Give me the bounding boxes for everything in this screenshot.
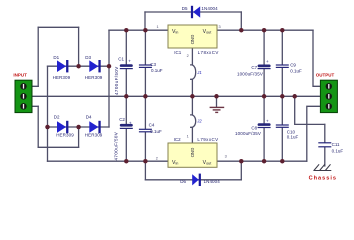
regulator IC1 body: [168, 25, 217, 48]
node -V at C2: [124, 159, 129, 164]
wire input top pin to riser: [24, 85, 39, 87]
node GND at C3/C4: [143, 94, 148, 99]
svg-text:1N4004: 1N4004: [201, 6, 218, 11]
node GND at J1/J2: [190, 94, 195, 99]
wire C9 stems: [281, 30, 283, 96]
svg-text:0.1uF: 0.1uF: [287, 135, 299, 140]
svg-text:D1: D1: [53, 55, 59, 60]
svg-text:0.1uF: 0.1uF: [151, 68, 163, 73]
wire AC1 drop to top diode row junction: [78, 27, 80, 66]
svg-text:Chassis: Chassis: [309, 176, 337, 182]
capacitor C4: [139, 129, 152, 133]
diode D3: [89, 60, 100, 72]
wire top diode row: [48, 65, 110, 67]
jumper J1: [191, 65, 196, 79]
svg-text:C7: C7: [251, 65, 257, 70]
node bottom row AC2 junction: [76, 125, 81, 130]
wire +V drop to output top pin: [313, 30, 320, 86]
svg-text:HER309: HER309: [85, 75, 103, 80]
svg-text:D6: D6: [180, 179, 186, 184]
regulator IC2 body: [168, 143, 217, 167]
node GND chassis tap: [292, 94, 297, 99]
capacitor C11: [318, 142, 331, 147]
wire -V rail from IC2 Vout: [217, 160, 307, 162]
chassis symbol: [313, 164, 331, 170]
svg-text:HER309: HER309: [56, 133, 74, 138]
svg-text:D5: D5: [182, 6, 188, 11]
node bottom row minus junction: [45, 125, 50, 130]
diode D5: [191, 6, 200, 18]
node top row AC1 junction: [76, 64, 81, 69]
wire D5 branch left riser: [144, 12, 146, 30]
wire C1 stems: [125, 30, 127, 96]
svg-text:Vout: Vout: [203, 29, 213, 35]
wire IC1 pin2 stem upper: [191, 48, 193, 65]
INPUT pin 3: [20, 103, 26, 109]
INPUT pin 1: [20, 83, 26, 89]
node -V at C8: [262, 159, 267, 164]
svg-text:C11: C11: [332, 142, 340, 147]
wire C10 stems: [281, 96, 283, 161]
svg-text:C9: C9: [290, 63, 296, 68]
wire C11 stems: [324, 124, 326, 166]
wire input bottom pin: [24, 105, 39, 107]
svg-text:1N4004: 1N4004: [204, 179, 221, 184]
wire +V line to IC1 Vin: [109, 29, 168, 31]
wire D5 branch horizontal: [145, 11, 241, 13]
svg-text:3: 3: [219, 25, 221, 29]
svg-text:1000uF/35V: 1000uF/35V: [237, 72, 263, 77]
svg-text:J1: J1: [196, 70, 201, 75]
svg-text:+: +: [266, 119, 269, 124]
wire -V rise to output bottom pin: [307, 106, 321, 161]
wire D6 branch horizontal: [145, 179, 241, 181]
svg-text:INPUT: INPUT: [13, 73, 27, 78]
svg-text:D2: D2: [54, 115, 60, 120]
node +V at C1 top: [124, 28, 129, 33]
wire D5 branch right riser: [240, 12, 242, 30]
svg-text:D4: D4: [86, 115, 92, 120]
capacitor C3: [139, 64, 152, 68]
wire D6 branch right rise: [240, 161, 242, 180]
node GND at C1/C2: [124, 94, 129, 99]
svg-text:+: +: [129, 120, 132, 125]
diode D4: [89, 121, 100, 133]
diode D6: [192, 174, 201, 186]
INPUT pin 2: [20, 93, 26, 99]
capacitor C8: [258, 119, 271, 129]
wire C7 stems: [263, 30, 265, 96]
wire left bridge rail (minus node): [47, 66, 49, 161]
wire -V rail to IC2 Vin: [48, 160, 169, 162]
wire C8 stems: [263, 96, 265, 161]
jumper J2: [191, 115, 196, 127]
svg-text:4700uF/50V: 4700uF/50V: [113, 132, 118, 161]
svg-text:IC2: IC2: [174, 137, 182, 142]
capacitor C1: [120, 58, 133, 69]
wire AC1 over-bridge horizontal: [38, 26, 78, 28]
node GND at C9/C10: [280, 94, 285, 99]
wire C3 stems: [144, 30, 146, 96]
svg-text:C8: C8: [251, 126, 257, 131]
svg-text:J2: J2: [196, 119, 202, 124]
wire IC2 pin1 stem lower: [191, 127, 193, 143]
node -V at C10: [280, 159, 285, 164]
svg-text:1: 1: [157, 25, 159, 29]
wire AC1 riser from input top pin: [37, 27, 39, 86]
node +V at D5 right: [239, 28, 244, 33]
capacitor C9: [276, 64, 289, 68]
node GND at ground symbol: [214, 94, 219, 99]
diode D2: [57, 121, 68, 133]
OUTPUT pin 3: [326, 103, 332, 109]
svg-text:Vin: Vin: [172, 29, 178, 35]
svg-text:+: +: [266, 59, 269, 64]
svg-text:C4: C4: [149, 123, 155, 128]
svg-text:C3: C3: [150, 62, 156, 67]
svg-text:D3: D3: [85, 55, 91, 60]
wire chassis branch: [295, 96, 325, 124]
svg-text:Vin: Vin: [172, 160, 178, 166]
wire AC2 under-bridge horizontal: [38, 146, 78, 148]
svg-text:2: 2: [156, 156, 158, 160]
node +V at C9: [280, 28, 285, 33]
svg-text:Vout: Vout: [203, 160, 213, 166]
capacitor C10: [276, 124, 289, 127]
wire IC1 pin2 stem lower: [191, 79, 193, 96]
wire +V line from IC1 Vout: [217, 29, 313, 31]
wire right bridge rail (plus node): [108, 30, 110, 127]
wire IC2 pin1 stem upper: [191, 96, 193, 115]
wire D6 branch left drop: [144, 161, 146, 180]
svg-text:0.1uF: 0.1uF: [332, 148, 344, 153]
connector J INPUT body: [15, 80, 32, 112]
capacitor C2: [120, 120, 133, 129]
wire AC2 drop: [37, 106, 39, 147]
wire C4 stems: [144, 96, 146, 161]
svg-text:IC1: IC1: [174, 50, 182, 55]
connector J OUTPUT body: [320, 80, 337, 112]
svg-text:+: +: [128, 58, 131, 63]
svg-text:C1: C1: [118, 56, 124, 61]
node +V at C3/D5: [143, 28, 148, 33]
node -V at D6 right: [239, 159, 244, 164]
svg-text:0.1uF: 0.1uF: [290, 68, 302, 73]
node -V at C4/D6: [143, 159, 148, 164]
svg-text:1: 1: [187, 135, 189, 139]
svg-text:L78xxCV: L78xxCV: [198, 50, 219, 55]
wire GND mid rail: [24, 95, 321, 97]
svg-text:HER309: HER309: [85, 133, 103, 138]
svg-text:L79xxCV: L79xxCV: [197, 137, 218, 142]
wire ground stem: [216, 96, 218, 107]
svg-text:C10: C10: [287, 129, 296, 134]
OUTPUT pin 2: [326, 93, 332, 99]
wire C2 stems: [125, 96, 127, 161]
svg-text:GND: GND: [190, 148, 195, 158]
svg-text:HER309: HER309: [53, 75, 71, 80]
ground symbol: [210, 107, 225, 112]
node GND at C7/C8: [262, 94, 267, 99]
svg-text:4700uF/50V: 4700uF/50V: [114, 66, 119, 95]
node +V at C7: [262, 28, 267, 33]
diode D1: [57, 60, 68, 72]
svg-text:3: 3: [225, 155, 227, 159]
wire AC2 rise to bottom diode row junction: [78, 127, 80, 147]
svg-text:2: 2: [187, 54, 189, 58]
svg-text:GND: GND: [190, 35, 195, 45]
svg-text:0.1uF: 0.1uF: [150, 129, 162, 134]
OUTPUT pin 1: [326, 83, 332, 89]
wire bottom diode row: [48, 126, 110, 128]
node top row plus junction: [107, 64, 112, 69]
svg-text:C2: C2: [119, 117, 125, 122]
capacitor C7: [258, 59, 271, 69]
svg-text:1000uF/35V: 1000uF/35V: [235, 131, 261, 136]
svg-text:OUTPUT: OUTPUT: [316, 72, 335, 77]
